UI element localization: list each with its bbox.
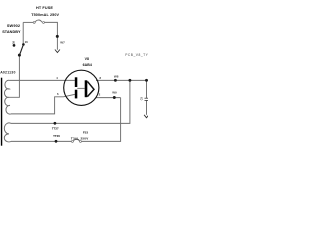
svg-text:F53: F53 (83, 131, 89, 135)
svg-text:HT FUSE: HT FUSE (36, 6, 53, 10)
svg-text:W7: W7 (60, 40, 65, 44)
svg-text:T500mAL 250V: T500mAL 250V (31, 13, 59, 17)
svg-text:A021130: A021130 (0, 70, 15, 74)
svg-text:TT27: TT27 (52, 127, 59, 131)
svg-text:T3AL 250V: T3AL 250V (71, 136, 89, 140)
svg-text:TT26: TT26 (53, 134, 60, 138)
svg-text:W9: W9 (112, 90, 117, 94)
svg-text:W8: W8 (114, 74, 119, 78)
svg-text:STANDBY: STANDBY (2, 30, 21, 34)
svg-text:6AB4: 6AB4 (83, 63, 92, 67)
svg-text:SW902: SW902 (7, 23, 21, 28)
svg-text:V8: V8 (85, 57, 89, 61)
svg-text:PCB_V8_TYP: PCB_V8_TYP (125, 53, 148, 57)
svg-text:C5: C5 (140, 97, 144, 101)
